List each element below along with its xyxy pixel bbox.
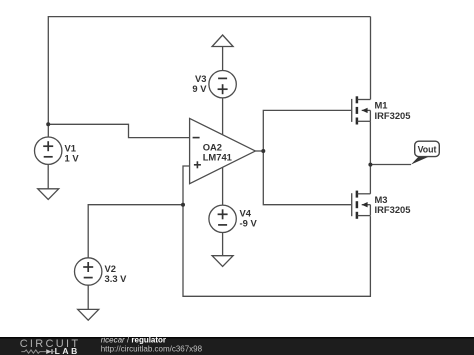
node A junction dot bbox=[46, 122, 50, 126]
wire node B to V2 top bbox=[88, 205, 183, 259]
wire feedback node A to op-amp inverting input bbox=[48, 124, 189, 137]
wire V3 arrow to V3 top bbox=[222, 47, 224, 72]
value label V3 / 9 V bbox=[192, 73, 207, 94]
transistor M1 (NMOS) bbox=[352, 96, 371, 124]
wire V2 bottom to ground bbox=[87, 285, 89, 310]
value label V4 / -9 V bbox=[240, 208, 258, 229]
svg-text:http://circuitlab.com/c367x98: http://circuitlab.com/c367x98 bbox=[101, 345, 203, 354]
voltage source V2 bbox=[75, 258, 102, 285]
wire top rail V1+ to M1 drain bbox=[48, 17, 370, 125]
value label M1 / IRF3205 bbox=[375, 100, 411, 121]
svg-text:LAB: LAB bbox=[55, 346, 80, 355]
footer bar bbox=[0, 336, 474, 355]
node B junction dot bbox=[181, 203, 185, 207]
op-amp OA2 bbox=[190, 118, 256, 183]
wire op-amp V- pin to V4 top bbox=[222, 167, 224, 205]
svg-text:Vout: Vout bbox=[418, 145, 437, 155]
svg-text:IRF3205: IRF3205 bbox=[375, 204, 411, 215]
value label V2 / 3.3 V bbox=[105, 263, 128, 284]
wire M1 source to node D bbox=[369, 121, 371, 164]
svg-text:9 V: 9 V bbox=[192, 83, 207, 94]
value label V1 / 1 V bbox=[65, 143, 80, 164]
wire op-amp noninverting input to node B bbox=[183, 166, 190, 205]
svg-text:3.3 V: 3.3 V bbox=[105, 273, 128, 284]
wire gate bus node C to M1 and M3 gates bbox=[263, 110, 351, 204]
wire V4 bottom to ground bbox=[222, 232, 224, 256]
power flag (V3 arrow) bbox=[212, 35, 233, 47]
ground (V1) bbox=[38, 189, 59, 200]
wire M1 drain to top rail bbox=[370, 17, 372, 100]
ground (V2) bbox=[78, 309, 99, 320]
voltage source V4 bbox=[209, 205, 236, 232]
svg-text:1 V: 1 V bbox=[65, 153, 80, 164]
voltage source V1 bbox=[35, 137, 62, 164]
wire V1 bottom to ground bbox=[47, 164, 49, 189]
node D junction dot bbox=[368, 163, 372, 167]
svg-text:-9 V: -9 V bbox=[240, 218, 258, 229]
transistor M3 (NMOS) bbox=[352, 191, 371, 219]
svg-text:LM741: LM741 bbox=[203, 151, 232, 162]
wire node D to Vout flag bbox=[370, 164, 411, 166]
value label OA2 / LM741 bbox=[203, 141, 232, 162]
ground (V4) bbox=[212, 256, 233, 267]
wire node A to V1 top bbox=[47, 124, 49, 137]
value label M3 / IRF3205 bbox=[375, 194, 411, 215]
svg-text:ricecar / regulator: ricecar / regulator bbox=[101, 336, 166, 345]
CircuitLab logo bbox=[20, 338, 81, 355]
wire node D to M3 drain bbox=[369, 165, 371, 194]
svg-text:IRF3205: IRF3205 bbox=[375, 110, 411, 121]
wire node B to M3 source (bottom loop) bbox=[183, 205, 370, 297]
wire V3 bottom to op-amp V+ pin bbox=[222, 98, 224, 135]
node Vout flag bbox=[411, 141, 439, 164]
voltage source V3 bbox=[209, 71, 236, 98]
wire op-amp output to node C bbox=[255, 150, 263, 152]
node C junction dot bbox=[261, 149, 265, 153]
